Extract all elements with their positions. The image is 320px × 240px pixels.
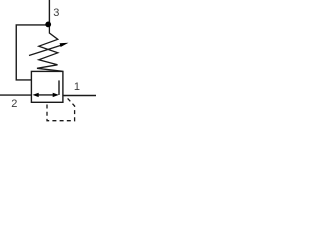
- svg-text:1: 1: [74, 81, 80, 93]
- svg-text:2: 2: [11, 98, 17, 110]
- svg-text:3: 3: [53, 7, 59, 19]
